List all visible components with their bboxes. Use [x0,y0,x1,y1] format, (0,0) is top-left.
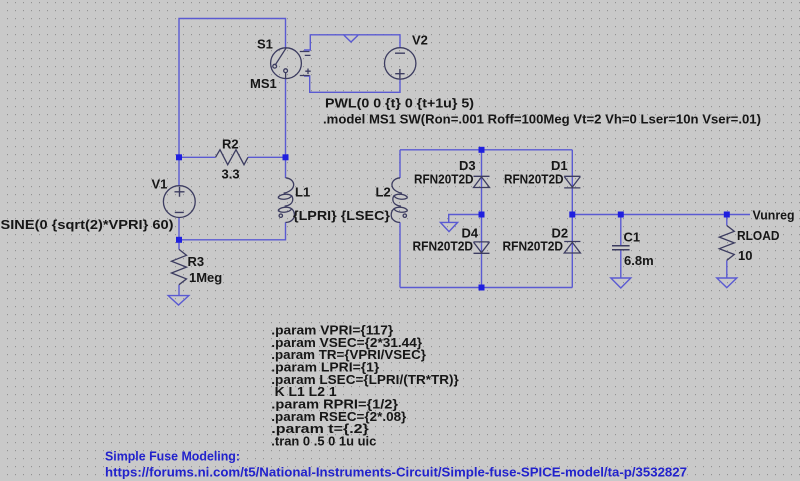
svg-text:RFN20T2D: RFN20T2D [413,239,474,254]
node V1 bottom [176,237,182,243]
node top rail D3 [479,147,485,153]
wire RLOAD bottom [726,260,728,278]
svg-text:10: 10 [738,248,752,263]
voltage source V1 [163,186,195,218]
wire output rail [572,214,750,216]
svg-text:R2: R2 [222,137,239,152]
svg-text:L2: L2 [376,185,391,200]
wire top-left loop [179,19,286,186]
svg-text:C1: C1 [624,230,641,245]
svg-text:https://forums.ni.com/t5/Natio: https://forums.ni.com/t5/National-Instru… [105,466,687,480]
wire bridge bottom rail [400,287,572,289]
wire D1 leg [571,150,573,215]
wire R2 row left [179,156,216,158]
ground at bridge mid [440,222,457,231]
wire V1 bottom [178,218,180,240]
svg-text:.model MS1 SW(Ron=.001 Roff=10: .model MS1 SW(Ron=.001 Roff=100Meg Vt=2 … [323,112,761,127]
wire R2 row right [248,156,286,158]
wire L2 bottom [399,222,401,287]
wire D2 leg [571,215,573,288]
diode D4 [474,242,490,253]
ground below RLOAD [717,278,737,288]
svg-text:Simple Fuse Modeling:: Simple Fuse Modeling: [105,450,240,464]
capacitor C1 [612,246,630,250]
junction dots [176,147,730,291]
voltage source V2 [385,48,416,79]
wire L2 top [399,150,401,178]
node R2 left [176,154,182,160]
wire D4 leg [481,215,483,288]
node bridge mid left [479,212,485,218]
node R2 right [283,154,289,160]
svg-text:V2: V2 [412,33,428,48]
svg-text:V1: V1 [152,177,168,192]
node C1 top [618,212,624,218]
inductor L2 [391,178,407,223]
wire D3 leg [481,150,483,215]
directive params block [271,323,459,449]
svg-text:{LPRI} {LSEC}: {LPRI} {LSEC} [293,208,390,223]
svg-text:MS1: MS1 [250,76,277,91]
wire C1 bottom [620,250,622,278]
wire V2 loop top [304,35,400,50]
ground below R3 [168,296,189,305]
wire primary bottom [179,222,286,240]
svg-text:R3: R3 [188,254,205,269]
switch S1 [271,48,302,79]
node RLOAD top [724,212,730,218]
resistor R2 [216,150,249,165]
svg-text:SINE(0 {sqrt(2)*VPRI} 60): SINE(0 {sqrt(2)*VPRI} 60) [1,217,174,232]
diode D1 [564,176,580,188]
svg-text:RFN20T2D: RFN20T2D [504,172,564,187]
wire mid ground stub [449,215,482,223]
svg-text:L1: L1 [295,185,310,200]
node bottom rail D4 [479,285,485,291]
resistor R3 [172,249,187,284]
svg-text:6.8m: 6.8m [624,253,654,268]
wire C1 top [620,215,622,246]
svg-text:.tran 0 .5 0 1u uic: .tran 0 .5 0 1u uic [271,434,376,449]
node bridge mid right [569,212,575,218]
diode D2 [564,242,580,254]
wire bridge top rail [400,149,572,151]
svg-text:PWL(0 0 {t} 0 {t+1u} 5): PWL(0 0 {t} 0 {t+1u} 5) [325,96,474,111]
wire V2 loop bottom [304,76,400,92]
wire R3 top [178,240,180,250]
wire RLOAD top [726,215,728,226]
wire R3 bottom [178,285,180,296]
resistor RLOAD [719,226,734,261]
ground below C1 [611,278,631,288]
ground flag chevron on V2 top wire [344,35,358,42]
svg-text:3.3: 3.3 [222,167,240,182]
svg-text:1Meg: 1Meg [189,270,222,285]
inductor L1 [278,178,294,223]
svg-text:RFN20T2D: RFN20T2D [414,172,474,187]
diode D3 [474,176,490,187]
svg-text:RFN20T2D: RFN20T2D [503,239,564,254]
svg-text:RLOAD: RLOAD [737,228,780,243]
wire switch bottom to R2 row [285,79,287,179]
svg-text:S1: S1 [257,37,273,52]
svg-text:Vunreg: Vunreg [753,208,795,223]
